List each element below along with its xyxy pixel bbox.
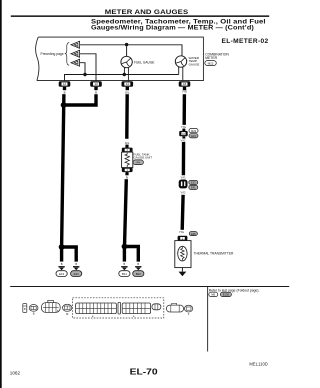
wire W4c joint to thermal transmitter (180, 195, 184, 230)
connector face view strip E23 (122, 303, 150, 318)
thermal transmitter thermistor ellipse (178, 246, 187, 261)
page connector triangle 1 (71, 41, 80, 48)
ground connector code B22 (133, 271, 144, 277)
thermistor zigzag (181, 247, 185, 260)
svg-text:Gauges/Wiring Diagram — METER: Gauges/Wiring Diagram — METER — (Cont’d) (91, 25, 254, 31)
svg-text:1062: 1062 (10, 371, 21, 376)
note connector code E105 (220, 292, 231, 297)
junction dot triangle3/bus (83, 73, 86, 76)
meter connector pin 18 (179, 81, 191, 87)
svg-text:B: B (137, 262, 139, 266)
junction dot W1 ground split (59, 244, 65, 250)
connector face view pill E38 (166, 303, 183, 312)
fuel tank gauge unit resistor (125, 153, 129, 167)
stub into joint M33 (182, 129, 185, 131)
connector face view oval B (29, 305, 38, 316)
ground bus wire inside meter (65, 75, 179, 82)
connector code E23 (189, 134, 198, 138)
svg-text:EL-70: EL-70 (130, 368, 158, 377)
stub below joint (182, 136, 185, 138)
wire from triangle 2 to pin 13 (80, 54, 96, 81)
ground terminal arrow B11 (121, 266, 127, 270)
svg-text:E23: E23 (191, 134, 196, 138)
wire dot to fuel gauge top (126, 45, 128, 57)
stub into fuel tank unit pin (125, 145, 128, 148)
svg-text:Y/G: Y/G (180, 138, 186, 142)
page binding edge (0, 0, 2, 388)
note connector code M6 (209, 292, 218, 297)
wire W3b unit to ground (125, 179, 127, 246)
connector code E23 (189, 180, 198, 184)
joint divider bar (118, 302, 121, 314)
connector code M22 (205, 61, 217, 66)
svg-text:14: 14 (126, 82, 130, 86)
wire W2 pin13 elbow to W1 (64, 94, 96, 105)
connector code M33 (189, 129, 198, 133)
wire W4 pin18 down (182, 94, 186, 125)
meter connector pin 12 (59, 81, 71, 87)
fuel tank gauge unit pin 1 (122, 168, 133, 173)
svg-text:F: F (188, 312, 190, 316)
wire W1 pin12 to ground (62, 94, 64, 247)
fuel tank gauge unit body (122, 152, 133, 168)
svg-text:M33: M33 (191, 129, 197, 133)
svg-text:E38: E38 (191, 233, 196, 236)
ground symbol (case ground arrow) (179, 272, 187, 277)
thermal transmitter ground lead (181, 268, 183, 272)
svg-text:Refer to last page (Foldout pa: Refer to last page (Foldout page). (209, 288, 260, 292)
svg-text:B: B (61, 262, 63, 266)
svg-text:THERMAL TRANSMITTER: THERMAL TRANSMITTER (194, 252, 235, 256)
junction dot above fuel gauge (125, 43, 128, 46)
ground connector code E13 (56, 271, 67, 277)
note box divider line (206, 286, 209, 352)
wire stub below pin 13 (94, 87, 97, 90)
svg-text:E13: E13 (59, 272, 65, 276)
wire stub below pin 18 (183, 87, 186, 90)
ground terminal arrow E41 (73, 266, 79, 270)
svg-text:B11: B11 (122, 272, 127, 276)
svg-text:B: B (124, 262, 126, 266)
meter connector pin 14 (122, 81, 134, 87)
header rule (11, 15, 269, 17)
connector face view M24 stadium grid (41, 300, 60, 312)
svg-text:B: B (95, 90, 97, 94)
connector face view strip M33 (76, 303, 117, 318)
ground branch wire right of W1 (62, 247, 77, 262)
svg-text:B: B (64, 90, 66, 94)
wire stub below pin 12 (63, 87, 66, 90)
svg-text:Preceding page: Preceding page (41, 52, 64, 56)
svg-text:METER AND GAUGES: METER AND GAUGES (105, 10, 189, 16)
svg-text:F4: F4 (137, 161, 141, 165)
wire W3 pin14 to fuel tank gauge unit (125, 94, 129, 139)
svg-text:G/L: G/L (125, 90, 130, 94)
combination meter box U1 outline (36, 37, 204, 81)
svg-text:E41: E41 (191, 186, 196, 190)
page connector triangle 2 (71, 50, 80, 57)
svg-text:a: a (92, 315, 94, 318)
svg-text:FUEL GAUGE: FUEL GAUGE (134, 60, 154, 64)
svg-text:E105: E105 (223, 293, 230, 297)
svg-text:METER: METER (205, 56, 217, 60)
page connector triangle 3 (71, 59, 80, 66)
ground terminal arrow E13 (58, 266, 64, 270)
svg-text:18: 18 (183, 82, 187, 86)
svg-text:13: 13 (94, 82, 98, 86)
connector face view single-pin (23, 304, 27, 313)
thermal transmitter body (175, 241, 191, 268)
svg-text:Y/G: Y/G (180, 176, 186, 180)
ground connector code B11 (119, 271, 130, 277)
water temp gauge terminal to bus (178, 67, 180, 75)
fuel tank gauge unit pin 2 (122, 148, 133, 153)
svg-text:B: B (126, 176, 128, 180)
svg-text:EL-METER-02: EL-METER-02 (222, 38, 269, 45)
svg-text:E41: E41 (74, 272, 80, 276)
connector face view small E (152, 304, 161, 310)
ground connector code E41 (71, 271, 82, 277)
label COMBINATION METER (205, 53, 229, 60)
footer band top rule (10, 286, 289, 287)
fuel gauge meter symbol (121, 56, 132, 67)
svg-text:M22: M22 (208, 61, 214, 65)
brace for preceding-page connectors (65, 43, 70, 66)
junction dot W3 ground split (122, 244, 128, 250)
meter connector pin 13 (90, 81, 102, 87)
svg-text:GAUGE UNIT: GAUGE UNIT (133, 156, 152, 160)
connector face view oval F4 (184, 305, 192, 316)
water temp gauge meter symbol (175, 56, 186, 67)
inline joint connector E23/E41 (179, 180, 188, 189)
connector code F4 (133, 160, 143, 165)
label FUEL TANK GAUGE UNIT (133, 152, 152, 159)
dashed group box (73, 298, 164, 318)
svg-text:MEL110D: MEL110D (249, 362, 268, 367)
svg-text:Y/G: Y/G (179, 230, 185, 234)
connector code E41 (189, 185, 198, 189)
svg-text:B: B (75, 262, 77, 266)
svg-text:B22: B22 (136, 272, 142, 276)
label WATER TEMP. GAUGE (189, 56, 200, 66)
fuel gauge terminal to bus (123, 67, 125, 74)
svg-text:E23: E23 (191, 181, 196, 185)
wire stub below pin 14 (126, 87, 129, 90)
fuel gauge terminal to pin 14 (127, 67, 129, 81)
connector code E38 (189, 232, 197, 236)
svg-text:G/L: G/L (125, 141, 130, 145)
inline joint connector M33/E23 (179, 131, 188, 136)
wire W4b joint to joint (182, 142, 186, 175)
svg-text:Y/G: Y/G (181, 125, 187, 129)
wire from triangle 1 to gauges supply (80, 45, 182, 56)
water temp gauge terminal to pin 18 (182, 67, 184, 81)
ground branch wire right of W3 (125, 247, 139, 262)
stub below fuel tank unit (125, 172, 128, 175)
svg-text:B: B (33, 311, 35, 315)
svg-text:12: 12 (63, 82, 67, 86)
svg-text:M: M (66, 312, 68, 316)
junction dot bus/fuel gauge (123, 73, 126, 76)
ground terminal arrow B22 (135, 266, 141, 270)
svg-text:Y/G: Y/G (180, 191, 186, 195)
svg-text:M6: M6 (211, 293, 215, 297)
ground stem left W1 (60, 247, 63, 262)
wire from triangle 3 to ground bus (80, 63, 85, 75)
junction dot W1/W2 (61, 102, 67, 108)
connector face view oval M6 (62, 304, 71, 316)
svg-text:GAUGE: GAUGE (189, 62, 200, 66)
thermal transmitter pin 1 (178, 236, 188, 241)
svg-text:Y/G: Y/G (182, 90, 188, 94)
ground stem left W3 (123, 247, 126, 262)
